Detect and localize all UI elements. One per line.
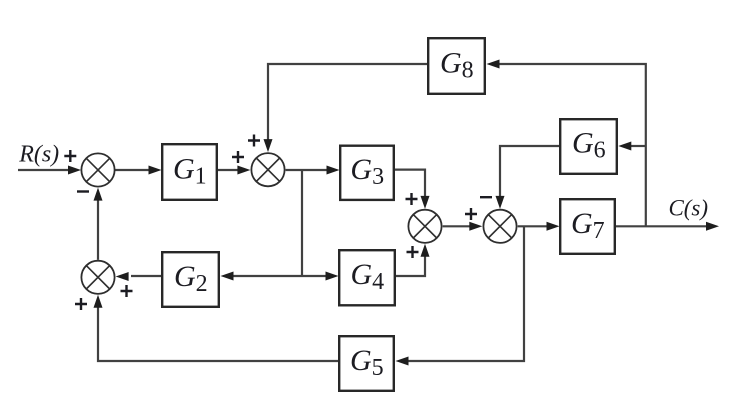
wire G6 to S4 (left then down) [500, 146, 559, 197]
svg-text:C(s): C(s) [669, 196, 709, 221]
wire S2 to G3 [286, 169, 329, 171]
block G3 [340, 146, 394, 200]
block G4 [339, 250, 395, 305]
sign - at S1 lower input [77, 190, 89, 192]
arrowhead into S5 from G2 [116, 272, 129, 281]
wire branch from S2 output down to middle row [301, 170, 303, 276]
wire R(s) input to S1 [18, 169, 70, 171]
sign + at S5 bottom input [75, 298, 87, 310]
arrowhead into G6 [618, 142, 631, 151]
wire G8 to S2 (left then down) [268, 64, 427, 141]
sign + at S1 input [64, 150, 76, 162]
arrowhead into S1 [68, 166, 81, 175]
arrowhead into S3 bottom [421, 244, 430, 257]
arrowhead into S3 top [421, 196, 430, 209]
summing junction S4 [483, 210, 516, 243]
sign - at S4 top input [480, 196, 492, 198]
wire S1 to G1 [115, 169, 151, 171]
arrowhead into G1 [149, 166, 162, 175]
sign + at S2 left input [232, 151, 244, 163]
wire G4 to S3 (right then up) [396, 256, 425, 276]
summing junction S1 [81, 153, 114, 186]
arrowhead into S5 bottom from G5 [94, 295, 103, 308]
sign + at S3 top input [406, 193, 418, 205]
block G2 [162, 252, 219, 307]
arrowhead into G7 [547, 222, 560, 231]
sign + at S3 bottom input [407, 246, 419, 258]
block G6 [560, 119, 617, 174]
summing junction S5 [81, 261, 114, 294]
arrowhead into G8 [487, 60, 500, 69]
wire S3 to S4 [443, 225, 471, 227]
summing junction S3 [408, 210, 441, 243]
wire G2 to S5 [131, 275, 161, 277]
wire G7 to C(s) output [616, 225, 706, 227]
wire G1 to S2 [218, 169, 240, 171]
block G1 [162, 144, 217, 200]
wire junction (302,276) to G2 [232, 275, 302, 277]
arrowhead into S4 top from G6 [496, 196, 505, 209]
wire S4 to G7 [518, 225, 548, 227]
wire branch down to G5 [407, 226, 524, 361]
summing junction S2 [251, 153, 284, 186]
svg-text:R(s): R(s) [18, 141, 59, 167]
wire feedback riser up from output line to G8 input [498, 64, 646, 226]
wire junction (302,276) to G4 [302, 275, 328, 277]
wire riser tap to G6 input [630, 145, 646, 147]
wire G3 to S3 (right then down) [395, 170, 425, 198]
block G8 [428, 38, 485, 94]
wire S5 up to S1 [97, 199, 99, 260]
block G5 [339, 336, 394, 391]
arrowhead into G4 [326, 272, 339, 281]
arrowhead into S2 top from G8 [264, 139, 273, 152]
arrowhead into S1 bottom from S5 [94, 188, 103, 201]
sign + at S5 right input [121, 285, 133, 297]
block G7 [560, 199, 615, 254]
sign + at S2 top input [248, 135, 260, 147]
arrowhead into S2 from G1 [237, 166, 250, 175]
arrowhead into G2 [221, 272, 234, 281]
wire G5 to S5 (left then up) [98, 306, 338, 361]
arrowhead output C(s) [706, 222, 719, 231]
arrowhead into G5 [396, 357, 409, 366]
arrowhead into G3 [327, 166, 340, 175]
arrowhead into S4 from S3 [469, 222, 482, 231]
sign + at S4 left input [465, 208, 477, 220]
